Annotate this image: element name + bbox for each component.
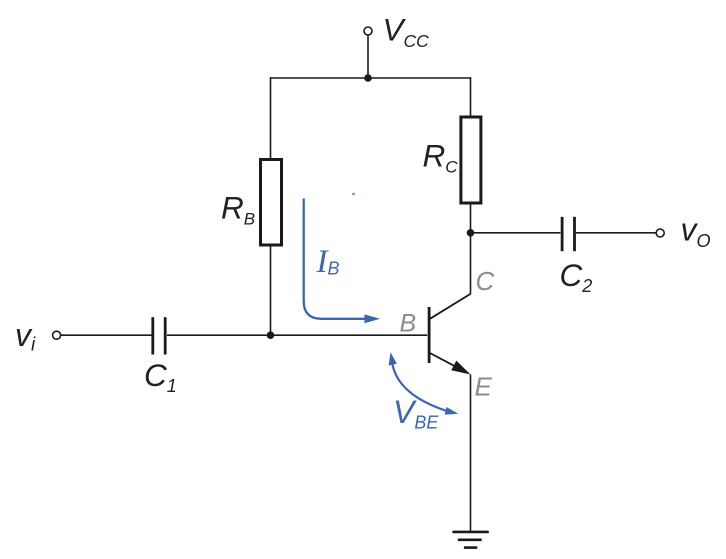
- wire RC top: [470, 77, 472, 117]
- arc arrow VBE: [389, 352, 459, 415]
- wire C2 to vO: [576, 232, 656, 234]
- wire RC bottom: [470, 204, 472, 233]
- terminal vO: [656, 229, 664, 237]
- svg-text:C: C: [476, 266, 495, 296]
- svg-text:C1: C1: [144, 357, 177, 396]
- resistor RB: [261, 160, 282, 246]
- ground: [452, 532, 488, 548]
- capacitor C2: [562, 217, 574, 251]
- current arrow IB: [304, 199, 381, 324]
- svg-text:vO: vO: [681, 212, 711, 252]
- junction output node: [467, 229, 475, 237]
- svg-text:VBE: VBE: [393, 394, 439, 433]
- svg-text:IB: IB: [316, 244, 340, 280]
- svg-text:vi: vi: [15, 317, 36, 356]
- wire emitter: [470, 375, 472, 532]
- wire top rail: [271, 77, 471, 79]
- wire RB bottom: [270, 247, 272, 336]
- capacitor C1: [153, 317, 165, 354]
- svg-text:VCC: VCC: [383, 12, 430, 51]
- svg-text:E: E: [475, 372, 493, 402]
- stray blue dot: [352, 193, 355, 196]
- wire base: [271, 334, 428, 336]
- svg-text:C2: C2: [560, 257, 593, 296]
- svg-text:RC: RC: [423, 138, 459, 177]
- wire RB top: [270, 77, 272, 158]
- wire vi to C1: [61, 334, 152, 336]
- wire C1 to base node: [167, 334, 271, 336]
- wire collector: [470, 233, 472, 294]
- svg-text:B: B: [400, 310, 417, 338]
- transistor Q1: [429, 294, 471, 375]
- svg-text:RB: RB: [221, 190, 255, 229]
- wire output node to C2: [471, 232, 561, 234]
- junction base node: [267, 331, 275, 339]
- junction VCC rail: [364, 74, 372, 82]
- terminal VCC: [364, 27, 372, 35]
- resistor RC: [461, 117, 481, 203]
- wire VCC stub: [367, 35, 369, 78]
- terminal vi: [53, 331, 61, 339]
